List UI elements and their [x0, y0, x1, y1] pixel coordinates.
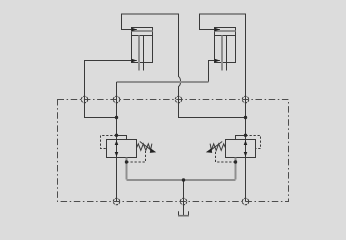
- relief valve V2 adjustment arrow: [211, 142, 223, 151]
- port P5: [113, 198, 120, 205]
- cylinder C2 rod-end port arrow: [215, 59, 220, 63]
- wire: cylinder C2 cap-end line to port P4 / right main line down: [200, 14, 246, 202]
- cylinder C1 barrel: [132, 28, 153, 63]
- junction J2 (P3 branch into right main): [244, 116, 247, 119]
- wire: cylinder C1 cap-end line to port P3 (with crossover hop): [122, 14, 246, 118]
- relief valve V1 body: [107, 140, 137, 158]
- wire: cylinder C2 rod-end line across to port P2 (grey blurred run): [209, 61, 220, 83]
- wire: common return collector (grey blurred run): [127, 179, 236, 181]
- wire: tank drop line through port P6: [183, 180, 185, 216]
- cylinder C2 piston: [215, 30, 236, 32]
- cylinder C2 barrel: [215, 28, 236, 63]
- port P6 (tank port): [180, 198, 187, 205]
- relief valve V1 pilot line (dashed): [101, 136, 117, 149]
- relief valve V2 flow arrows (on main line): [244, 140, 248, 145]
- relief valve V2 inlet tap: [236, 136, 246, 140]
- enclosure boundary (dash-dot manifold box): [58, 100, 289, 202]
- port P7: [242, 198, 249, 205]
- port P3: [175, 96, 182, 103]
- cylinder C1 piston: [132, 30, 153, 32]
- relief valve V1 adjustment arrow: [140, 142, 152, 151]
- relief valve V2 spring: [210, 144, 225, 151]
- cylinder C1 cap-end port arrow: [132, 28, 137, 32]
- junction J1 (P1 branch into left main): [115, 116, 118, 119]
- port P1: [81, 96, 88, 103]
- relief valve V2 pilot line (dashed): [246, 136, 261, 149]
- relief valve V1 flow arrows (on main line): [115, 140, 119, 145]
- cylinder C2 rod: [221, 36, 223, 71]
- wire: cylinder C1 rod-end line to port P1 and down to node J1: [85, 61, 137, 118]
- tank (reservoir) symbol: [178, 211, 180, 215]
- relief valve V2 spring drain (dashed): [216, 151, 236, 162]
- relief valve V1 spring drain (dashed): [127, 151, 146, 162]
- wire: left main line from P2 through valve V1 to bottom port: [116, 82, 118, 202]
- junction J5 (V1 drain tap): [125, 160, 128, 163]
- junction J6 (V2 drain tap): [234, 160, 237, 163]
- cylinder C2 cap-end port arrow: [215, 28, 220, 32]
- relief valve V1 outlet drop: [126, 158, 128, 180]
- relief valve V2 outlet drop: [235, 158, 237, 180]
- relief valve V1 spring: [137, 144, 152, 151]
- junction J7 (collector to tank): [182, 178, 185, 181]
- cylinder C1 rod: [138, 36, 140, 71]
- cylinder C1 rod-end port arrow: [132, 59, 137, 63]
- port P4: [242, 96, 249, 103]
- junction J3 (V1 inlet/pilot tap): [115, 134, 118, 137]
- port P2: [113, 96, 120, 103]
- relief valve V1 inlet tap: [117, 136, 127, 140]
- relief valve V2 body: [226, 140, 256, 158]
- junction J4 (V2 inlet/pilot tap): [244, 134, 247, 137]
